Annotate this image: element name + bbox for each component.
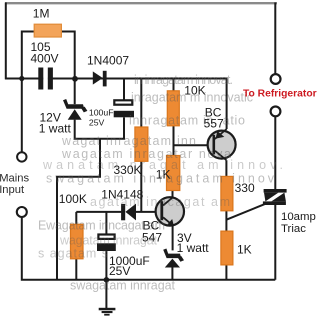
svg-text:100uF: 100uF	[89, 107, 114, 117]
svg-text:wagatam inragatar nova: wagatam inragatar nova	[61, 147, 231, 161]
svg-text:To Refrigerator: To Refrigerator	[243, 88, 317, 99]
svg-text:Mains: Mains	[0, 172, 29, 184]
svg-text:100K: 100K	[59, 192, 87, 206]
svg-text:1K: 1K	[156, 168, 171, 182]
svg-text:s agatam s: s agatam s	[38, 247, 108, 261]
svg-text:1M: 1M	[33, 7, 50, 21]
svg-text:547: 547	[142, 231, 162, 245]
svg-text:25V: 25V	[109, 264, 130, 278]
svg-text:330: 330	[235, 181, 255, 195]
svg-text:1 watt: 1 watt	[177, 241, 210, 255]
svg-text:10amp: 10amp	[281, 211, 316, 223]
svg-text:25V: 25V	[89, 118, 105, 128]
svg-text:400V: 400V	[31, 52, 59, 66]
svg-text:1N4148: 1N4148	[101, 188, 143, 202]
svg-text:557: 557	[204, 117, 224, 131]
svg-text:330K: 330K	[114, 163, 142, 177]
svg-text:Triac: Triac	[281, 223, 306, 235]
svg-text:swagatam innragat: swagatam innragat	[70, 278, 176, 292]
svg-text:Input: Input	[0, 184, 25, 196]
svg-text:innragatam in. atio: innragatam in. atio	[129, 114, 245, 128]
svg-text:1 watt: 1 watt	[39, 122, 72, 136]
svg-text:1K: 1K	[237, 243, 252, 257]
svg-text:1N4007: 1N4007	[87, 54, 129, 68]
svg-text:10K: 10K	[184, 84, 205, 98]
